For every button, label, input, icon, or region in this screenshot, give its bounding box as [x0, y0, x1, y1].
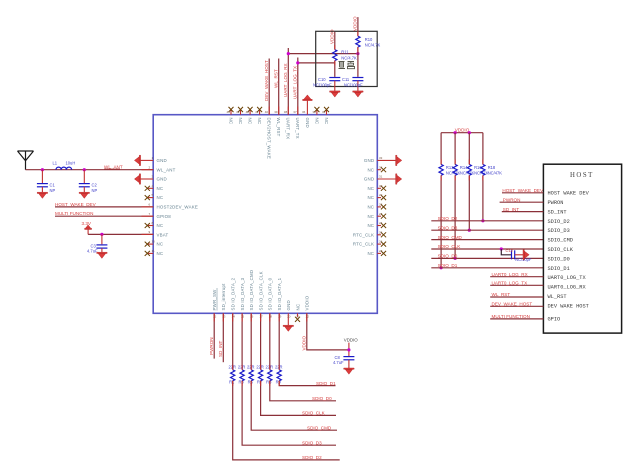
pin 26 NC cross [377, 221, 386, 228]
svg-text:VDDIO: VDDIO [305, 295, 310, 310]
pin 30 NC cross [377, 184, 386, 191]
SECTION-PULLUPS [431, 128, 543, 270]
svg-text:WL_RST: WL_RST [274, 69, 279, 88]
node UART_LOG_RX at R10 line [356, 52, 359, 55]
wire rail to R16 [468, 133, 470, 165]
svg-text:SD_INT: SD_INT [218, 340, 223, 357]
net label SDIO_D3 [438, 225, 458, 230]
svg-text:35: 35 [312, 110, 316, 114]
svg-text:NC: NC [157, 186, 164, 191]
SECTION-RIGHT [353, 155, 402, 256]
wire 3.3V to VBAT pin 9 [88, 233, 153, 235]
wire SDIO_D0 to HOST [431, 257, 543, 259]
svg-text:NC: NC [324, 118, 329, 125]
svg-text:PWR_SW: PWR_SW [212, 289, 217, 311]
capacitor C10 NC/100pF [313, 77, 340, 91]
svg-text:GND: GND [157, 158, 167, 163]
net label WL_RST vertical [274, 69, 279, 88]
resistor R10 NC/4.7K [356, 36, 381, 47]
pin 29 NC cross [377, 193, 386, 200]
capacitor C3 4.7uF [87, 234, 107, 253]
antenna ANT1 [18, 151, 34, 170]
svg-text:NP: NP [92, 188, 98, 193]
net label UART_LOG_TX vertical [293, 66, 298, 99]
svg-text:WL_RST: WL_RST [548, 294, 567, 300]
net label SDIO_D1 [316, 381, 336, 386]
svg-text:HOST2DEV_WAKE: HOST2DEV_WAKE [157, 205, 198, 210]
svg-text:GND: GND [286, 300, 291, 310]
reserved block outline [316, 31, 378, 86]
pin 41 NC cross [255, 107, 262, 115]
wire R1 to SDIO_D2 label [233, 381, 340, 460]
svg-text:SD_interrupt: SD_interrupt [221, 283, 226, 311]
svg-text:C12: C12 [506, 248, 514, 253]
wire SDIO_D1 to HOST [431, 267, 543, 269]
power 3.3V [82, 221, 92, 235]
svg-text:GND: GND [364, 177, 374, 182]
resistor R11 NC/4.7K [333, 49, 357, 60]
svg-text:GPIO: GPIO [548, 317, 561, 323]
svg-text:SDIO_D3: SDIO_D3 [302, 440, 322, 445]
net label SDIO_D1 [438, 263, 458, 268]
HOST connector box [543, 164, 621, 333]
pin 9 number [149, 230, 151, 234]
svg-text:SDIO_D0: SDIO_D0 [438, 254, 458, 259]
svg-text:NC: NC [157, 223, 164, 228]
net label SD_INT [503, 207, 520, 212]
svg-text:37: 37 [293, 110, 297, 114]
svg-text:NC: NC [367, 205, 374, 210]
wire R18 to SDIO_D2 [482, 175, 484, 220]
wire pin 19 to R9 [278, 313, 282, 369]
svg-text:NC: NC [228, 118, 233, 125]
wire WL_ANT antenna to pin 2 [26, 169, 154, 171]
svg-text:MULTI FUNCTION: MULTI FUNCTION [492, 314, 530, 319]
ground below C8 [344, 368, 354, 374]
svg-text:NC: NC [248, 118, 253, 125]
SECTION-TOP [227, 16, 381, 159]
wire pin 18 to R8 [269, 313, 273, 369]
net label UART0_LOG_TX [492, 281, 528, 286]
svg-text:VDDIO: VDDIO [353, 16, 358, 31]
pin 4 NC cross [145, 184, 154, 191]
net label DEV_WAKE_HOST vertical [264, 60, 269, 101]
svg-text:WL_ANT: WL_ANT [104, 164, 123, 169]
svg-text:WL_RST: WL_RST [492, 292, 511, 297]
pin 8 NC cross [145, 221, 154, 228]
bottom pin names vertical [212, 270, 310, 311]
pin 44 NC cross [227, 107, 234, 115]
pin 20 GND stub with ground arrow down [283, 313, 293, 331]
resistor R8 22R [266, 365, 274, 385]
svg-text:14: 14 [232, 314, 236, 318]
svg-text:SDIO_D1: SDIO_D1 [438, 263, 458, 268]
node UART_LOG_RX corner [287, 52, 290, 55]
svg-text:42: 42 [246, 110, 250, 114]
pin 31 GND stub with ground arrow right [377, 174, 402, 184]
SECTION-HOST [490, 164, 621, 333]
wire rail to R14 [454, 133, 456, 165]
node R13/SDIO_D1 [440, 266, 443, 269]
pin 21 NC cross [295, 313, 300, 322]
svg-text:3.3V: 3.3V [82, 221, 92, 226]
wire R3 to SDIO_D3 label [242, 381, 336, 445]
pin 34 NC cross [322, 107, 329, 115]
svg-text:NC: NC [257, 118, 262, 125]
wire R8 to SDIO_D0 label [270, 381, 336, 401]
resistor R3 22R [238, 365, 246, 385]
wire UART_LOG_RX from pin 38 up and right [284, 48, 358, 115]
pin 42 NC cross [246, 107, 253, 115]
svg-text:GND: GND [364, 158, 374, 163]
resistor R16 NC/47K [467, 164, 489, 175]
svg-text:15: 15 [241, 314, 245, 318]
svg-text:SDIO_D3: SDIO_D3 [548, 228, 570, 234]
ground below C2 [79, 192, 89, 198]
net label SDIO_D2 [302, 455, 322, 460]
wire R14 to SDIO_D0 [454, 175, 456, 258]
resistor R13 NC/47K [439, 164, 461, 175]
wire SD_INT into HOST [502, 211, 544, 213]
node SDIO_CLK/C12 [500, 247, 503, 250]
svg-text:VDDIO: VDDIO [455, 128, 470, 133]
ground right of C12 [523, 250, 529, 260]
net label SDIO_D3 [302, 440, 322, 445]
node antenna/C1 junction [41, 168, 44, 171]
wire MULTI FUNCTION to pin 7 [55, 215, 153, 217]
wire VDDIO rail [441, 132, 483, 134]
wire PWRON into HOST [500, 201, 544, 203]
wire MULTI FUNCTION into HOST [490, 318, 543, 320]
svg-text:UART_RX: UART_RX [286, 118, 291, 140]
svg-text:UART0_LOG_TX: UART0_LOG_TX [548, 275, 587, 281]
svg-text:4.7uF: 4.7uF [333, 360, 344, 365]
svg-text:30: 30 [379, 184, 383, 188]
svg-text:43: 43 [236, 110, 240, 114]
wire R13 to SDIO_D1 [440, 175, 442, 267]
svg-text:27: 27 [379, 212, 383, 216]
svg-text:34: 34 [322, 110, 326, 114]
svg-text:40: 40 [265, 110, 269, 114]
net label SD_INT vertical [218, 340, 223, 357]
net label SDIO_D2 [438, 216, 458, 221]
svg-text:10uH: 10uH [66, 161, 76, 166]
wire DEV_WAKE_HOST from pin 40 [265, 59, 270, 115]
svg-text:UART0_LOG_RX: UART0_LOG_RX [492, 272, 528, 277]
pin 32 NC cross [377, 165, 386, 172]
svg-text:SDIO_D0: SDIO_D0 [312, 396, 332, 401]
wire R9 to SDIO_D1 label [279, 381, 335, 386]
wire rail to R18 [482, 133, 484, 165]
wire rail to R13 [440, 133, 442, 165]
ground below C11 [353, 91, 363, 97]
svg-text:R10: R10 [365, 37, 373, 42]
svg-text:GND: GND [157, 177, 167, 182]
svg-text:21: 21 [296, 314, 300, 318]
svg-text:NC/47K: NC/47K [488, 171, 503, 176]
svg-text:HOST_WAKE_DEV: HOST_WAKE_DEV [55, 202, 97, 207]
net label PWRON vertical [209, 337, 214, 355]
power label VDDIO rail [455, 128, 470, 133]
svg-text:C11: C11 [342, 77, 350, 82]
svg-text:NC/100pF: NC/100pF [313, 83, 332, 88]
svg-text:NC: NC [367, 223, 374, 228]
svg-text:DEV2HOST_WAKE: DEV2HOST_WAKE [267, 118, 272, 159]
node L1/C2 junction [83, 168, 86, 171]
svg-text:UART_LOG_RX: UART_LOG_RX [283, 63, 288, 97]
svg-text:SDIO_CLK: SDIO_CLK [548, 247, 574, 253]
resistor terminal marks [233, 32, 483, 386]
svg-text:DEV WAKE HOST: DEV WAKE HOST [548, 303, 589, 309]
wire SD_INT from pin 13 [222, 313, 226, 362]
svg-text:23: 23 [379, 249, 383, 253]
svg-text:16: 16 [250, 314, 254, 318]
svg-text:C10: C10 [318, 77, 326, 82]
svg-text:NC: NC [238, 118, 243, 125]
net label VDDIO on left branch [330, 29, 335, 44]
svg-text:SD IO_DATA_CLK: SD IO_DATA_CLK [258, 271, 263, 310]
pin 35 NC cross [312, 107, 319, 115]
svg-text:SDIO_D2: SDIO_D2 [548, 219, 570, 225]
pin 1 GND stub with ground arrow [134, 155, 153, 165]
svg-text:SD IO_DATA_CMD: SD IO_DATA_CMD [249, 270, 254, 311]
pin 3 GND stub with ground arrow [134, 174, 153, 184]
svg-text:32: 32 [379, 165, 383, 169]
svg-text:MULTI FUNCTION: MULTI FUNCTION [55, 211, 93, 216]
svg-text:17: 17 [259, 314, 263, 318]
node VDDIO/C8 junction [347, 348, 350, 351]
wire SDIO_CLK to C12 [501, 249, 511, 255]
resistor R18 NC/47K [481, 164, 503, 175]
svg-text:12: 12 [213, 314, 217, 318]
svg-text:SDIO_D0: SDIO_D0 [548, 256, 570, 262]
svg-text:SD IO_DATA_2: SD IO_DATA_2 [231, 277, 236, 310]
wire HOST_WAKE_DEV into HOST [502, 192, 543, 194]
svg-text:28: 28 [379, 203, 383, 207]
svg-text:SDIO_D1: SDIO_D1 [548, 266, 570, 272]
svg-text:26: 26 [379, 221, 383, 225]
node R14/SDIO_D0 [454, 257, 457, 260]
svg-text:UART0_LOG_RX: UART0_LOG_RX [548, 285, 587, 291]
svg-text:UART_LOG_TX: UART_LOG_TX [293, 66, 298, 99]
wire DEV_WAKE_HOST into HOST [490, 305, 543, 307]
svg-text:C1: C1 [50, 183, 56, 188]
wire R10 to C11 [357, 47, 359, 77]
svg-text:39: 39 [274, 110, 278, 114]
svg-text:UART0_LOG_TX: UART0_LOG_TX [492, 281, 528, 286]
svg-text:R9: R9 [276, 380, 282, 385]
net label WL_ANT [104, 164, 123, 169]
svg-text:NC/4.7K: NC/4.7K [341, 56, 357, 61]
capacitor C12 NC/10pF [506, 248, 532, 262]
svg-text:WL_RST: WL_RST [276, 118, 281, 137]
wire VDDIO right branch above block [357, 17, 359, 36]
svg-text:NC: NC [367, 214, 374, 219]
svg-text:NC: NC [314, 118, 319, 125]
pin terminal marks [142, 107, 307, 322]
net label UART_LOG_RX vertical [283, 63, 288, 97]
svg-text:20: 20 [287, 314, 291, 318]
svg-text:44: 44 [227, 110, 231, 114]
net label SDIO_CLK [302, 411, 326, 416]
svg-text:PWRON: PWRON [209, 337, 214, 355]
pin 23 NC cross [377, 249, 386, 256]
net label SDIO_CMD [438, 235, 463, 240]
wire R16 to SDIO_D3 [468, 175, 470, 230]
svg-text:GND: GND [305, 118, 310, 128]
svg-text:SD IO_DATA_3: SD IO_DATA_3 [240, 277, 245, 310]
wire SDIO_D2 to HOST [431, 220, 543, 222]
svg-text:NP: NP [50, 188, 56, 193]
svg-text:SDIO_D3: SDIO_D3 [438, 225, 458, 230]
svg-text:SDIO_D2: SDIO_D2 [302, 455, 322, 460]
wire VDDIO left branch in block [334, 32, 336, 50]
svg-text:VDDIO: VDDIO [344, 337, 358, 342]
node rail R16 [468, 131, 471, 134]
pin 6 number [149, 203, 151, 207]
pin 24 NC cross [377, 240, 386, 247]
right pin names [353, 158, 374, 256]
top pin names vertical [228, 118, 329, 159]
pin 7 number [149, 212, 151, 216]
pin 36 GND stub with power arrow up [302, 95, 312, 115]
resistor R9 22R [275, 365, 283, 385]
svg-text:R7: R7 [257, 380, 263, 385]
svg-text:RTC_CLK: RTC_CLK [353, 232, 374, 237]
capacitor C8 4.7uF [333, 355, 354, 368]
svg-text:VDDIO: VDDIO [302, 336, 307, 351]
wire SDIO_CMD to HOST [431, 239, 543, 241]
capacitor C1 NP [37, 170, 56, 193]
svg-text:L1: L1 [53, 161, 58, 166]
svg-text:24: 24 [379, 240, 383, 244]
svg-text:RTC_CLK: RTC_CLK [353, 242, 374, 247]
svg-text:31: 31 [379, 175, 383, 179]
node R16/SDIO_D3 [468, 229, 471, 232]
net label PWRON [503, 197, 521, 202]
svg-text:PWRON: PWRON [548, 200, 564, 206]
wire HOST_WAKE_DEV to pin 6 [55, 206, 153, 208]
pin 11 NC cross [145, 249, 155, 256]
svg-text:NC: NC [367, 167, 374, 172]
wire SDIO_CLK to HOST [431, 248, 543, 250]
svg-text:DEV_WAKE_HOST: DEV_WAKE_HOST [264, 60, 269, 101]
wire pin 17 to R7 [259, 313, 263, 369]
svg-text:SD_INT: SD_INT [503, 207, 520, 212]
net label HOST_WAKE_DEV [55, 202, 97, 207]
svg-text:4.7uF: 4.7uF [87, 249, 98, 254]
svg-text:NC/4.7K: NC/4.7K [365, 43, 381, 48]
ground below C3 [97, 252, 107, 258]
wire pin 14 to R1 [232, 313, 236, 369]
svg-text:SDIO_CMD: SDIO_CMD [548, 238, 573, 244]
svg-text:SDIO_CLK: SDIO_CLK [302, 411, 326, 416]
net label HOST_WAKE_DEV [502, 188, 544, 193]
svg-text:NC/47K: NC/47K [460, 171, 475, 176]
capacitor C2 NP [79, 170, 98, 193]
svg-text:NC: NC [157, 242, 164, 247]
HOST pin names [548, 191, 590, 323]
wire pin 15 to R3 [241, 313, 245, 369]
IC U1 body [153, 115, 377, 314]
svg-text:R1: R1 [229, 380, 235, 385]
svg-text:R18: R18 [488, 165, 496, 170]
pin 28 NC cross [377, 203, 386, 210]
wire R11 to C10 [334, 61, 336, 77]
pin 10 NC cross [145, 240, 155, 247]
wire WL_RST into HOST [490, 296, 543, 298]
node R18/SDIO_D2 [481, 219, 484, 222]
pin 33 GND stub with ground arrow right [377, 155, 402, 165]
net label UART0_LOG_RX [492, 272, 528, 277]
net label VDDIO on right branch [353, 16, 358, 31]
SECTION-LEFT [18, 151, 198, 258]
svg-text:22: 22 [306, 314, 310, 318]
svg-text:36: 36 [302, 110, 306, 114]
pin 25 NC cross [377, 230, 386, 237]
wire UART_LOG_TX from pin 37 up and right [293, 58, 335, 115]
svg-text:19: 19 [278, 314, 282, 318]
wire PWRON from pin 12 [213, 313, 217, 358]
wire UART0_LOG_RX into HOST [490, 276, 543, 278]
svg-text:SDIO_CMD: SDIO_CMD [307, 425, 332, 430]
net label WL_RST [492, 292, 511, 297]
svg-text:C2: C2 [92, 183, 98, 188]
svg-text:R6: R6 [248, 380, 254, 385]
svg-text:DEV_WAKE_HOST: DEV_WAKE_HOST [492, 302, 533, 307]
SECTION-BOTTOM [209, 270, 358, 460]
svg-text:33: 33 [379, 156, 383, 160]
wire R6 to SDIO_CMD label [251, 381, 337, 430]
svg-text:PWRON: PWRON [503, 197, 521, 202]
svg-text:SDIO_D1: SDIO_D1 [316, 381, 336, 386]
resistor R1 22R [228, 365, 236, 385]
left pin names [157, 158, 198, 256]
ground below C1 [37, 192, 47, 198]
svg-text:VDDIO: VDDIO [330, 29, 335, 44]
svg-text:SDIO_D2: SDIO_D2 [438, 216, 458, 221]
svg-text:NC: NC [157, 195, 164, 200]
svg-text:SD IO_DATA_0: SD IO_DATA_0 [268, 277, 273, 310]
resistor R14 NC/47K [453, 164, 475, 175]
svg-text:UART_TX: UART_TX [295, 118, 300, 139]
wire VDDIO from pin 22 [306, 313, 349, 350]
svg-text:HOST_WAKE_DEV: HOST_WAKE_DEV [502, 188, 544, 193]
pin 2 number [149, 165, 151, 169]
wire pin 16 to R6 [250, 313, 254, 369]
pin 27 NC cross [377, 212, 386, 219]
net label VDDIO vertical [302, 336, 307, 351]
svg-text:HOST WAKE DEV: HOST WAKE DEV [548, 191, 590, 197]
svg-text:NC: NC [367, 251, 374, 256]
net label SDIO_CMD [307, 425, 332, 430]
wire SDIO_D3 to HOST [431, 229, 543, 231]
svg-text:SDIO_CLK: SDIO_CLK [438, 244, 462, 249]
svg-text:NC: NC [367, 195, 374, 200]
svg-text:NC/100pF: NC/100pF [344, 83, 363, 88]
svg-text:11: 11 [152, 249, 155, 253]
node rail R14 [454, 131, 457, 134]
svg-text:SD_INT: SD_INT [548, 209, 567, 215]
svg-text:38: 38 [284, 110, 288, 114]
svg-text:C3: C3 [91, 243, 97, 248]
ground below C10 [330, 91, 340, 97]
node UART_LOG_TX corner [296, 61, 299, 64]
svg-text:R3: R3 [238, 380, 244, 385]
svg-text:SDIO_CMD: SDIO_CMD [438, 235, 463, 240]
capacitor C11 NC/100pF [342, 77, 363, 91]
svg-text:SD IO_DATA_1: SD IO_DATA_1 [277, 277, 282, 310]
